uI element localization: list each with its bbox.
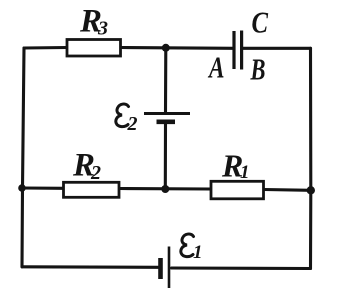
wire middle-right segment [264,188,311,192]
label E2 [116,104,129,127]
wire top-right segment [243,47,311,50]
svg-text:A: A [208,50,225,85]
battery E2 [144,114,190,122]
wire left side [22,48,24,267]
resistor R1 [211,181,264,199]
wire top-middle segment [121,46,234,50]
svg-text:3: 3 [97,18,108,40]
battery E1 [161,247,170,289]
svg-text:C: C [252,5,269,40]
capacitor C [234,31,242,70]
svg-text:B: B [250,52,266,87]
wire bottom-right segment [172,266,311,270]
node top junction [162,44,170,52]
wire bottom-left segment [22,265,159,269]
label E1 [181,234,194,257]
wire center vertical lower [164,123,167,189]
svg-text:2: 2 [127,113,138,135]
node right junction [307,186,315,194]
resistor R2 [64,182,120,197]
wire top-left segment [24,46,67,50]
svg-text:2: 2 [90,162,101,184]
wire right side [309,48,312,268]
wire middle-center segment [120,187,211,191]
wire middle-left segment [23,186,64,189]
node left junction [18,184,26,192]
svg-text:1: 1 [193,242,203,263]
svg-text:1: 1 [240,162,250,183]
resistor R3 [67,40,121,57]
wire center vertical upper [164,48,167,112]
node center junction [161,185,169,193]
